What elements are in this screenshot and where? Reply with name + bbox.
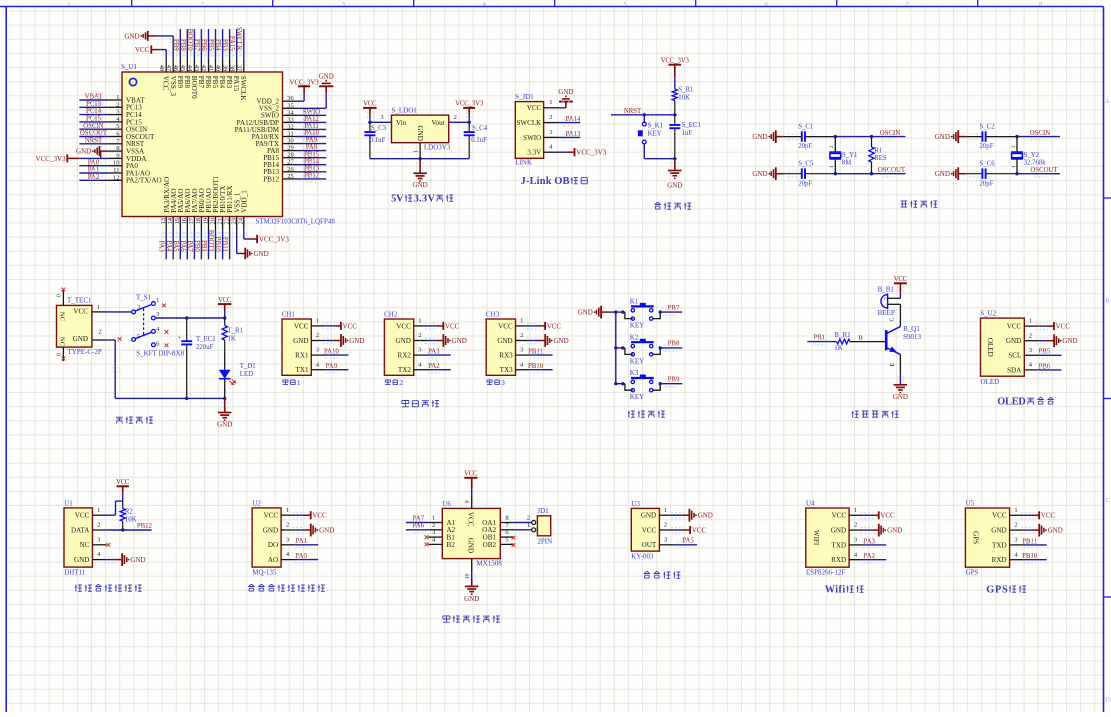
svg-text:28: 28	[287, 152, 294, 159]
svg-text:37: 37	[235, 65, 242, 72]
svg-text:3: 3	[664, 536, 667, 543]
svg-text:KEY: KEY	[648, 131, 662, 138]
svg-text:8: 8	[505, 515, 508, 522]
svg-text:PB9: PB9	[176, 76, 184, 89]
svg-text:PB6: PB6	[200, 39, 207, 51]
svg-text:PB7: PB7	[668, 305, 680, 312]
svg-text:S_KFT DIP-8X8: S_KFT DIP-8X8	[136, 349, 184, 357]
svg-text:1: 1	[297, 378, 301, 387]
svg-text:S_U2: S_U2	[980, 310, 996, 318]
svg-text:0.1uF: 0.1uF	[370, 137, 386, 144]
svg-text:GND: GND	[76, 148, 91, 156]
svg-text:K2: K2	[630, 333, 639, 341]
svg-text:32: 32	[287, 123, 294, 130]
svg-text:PB0: PB0	[193, 240, 200, 252]
svg-text:30: 30	[287, 138, 294, 145]
svg-text:VCC: VCC	[312, 512, 327, 520]
svg-text:1: 1	[286, 507, 289, 514]
svg-text:11: 11	[113, 167, 119, 174]
svg-text:WIFI: WIFI	[812, 530, 820, 546]
svg-text:VCC: VCC	[498, 322, 513, 330]
svg-text:PB5: PB5	[207, 39, 214, 51]
svg-text:S_K1: S_K1	[648, 123, 664, 130]
svg-text:26: 26	[287, 166, 294, 173]
svg-text:DO: DO	[268, 541, 278, 549]
svg-text:2: 2	[1011, 145, 1017, 148]
svg-text:46: 46	[172, 65, 179, 72]
svg-text:S_EC1: S_EC1	[682, 122, 701, 129]
svg-text:JD1: JD1	[537, 507, 549, 515]
svg-text:GND: GND	[74, 556, 89, 564]
svg-text:GND: GND	[554, 337, 569, 345]
svg-text:2: 2	[286, 522, 289, 529]
svg-text:GND: GND	[466, 538, 474, 553]
svg-text:S_R1: S_R1	[678, 86, 693, 93]
svg-text:OSCIN: OSCIN	[83, 123, 103, 130]
svg-text:C: C	[1105, 497, 1109, 504]
svg-text:5V: 5V	[391, 194, 404, 205]
svg-text:PA3: PA3	[428, 349, 440, 356]
svg-text:TX2: TX2	[398, 366, 411, 374]
svg-text:1: 1	[1011, 165, 1017, 168]
svg-text:DATA: DATA	[71, 526, 90, 534]
svg-text:SDA: SDA	[1007, 366, 1022, 374]
svg-text:20pF: 20pF	[798, 180, 812, 187]
svg-text:OLED: OLED	[997, 397, 1026, 408]
svg-text:RX2: RX2	[397, 352, 411, 360]
svg-text:2: 2	[1014, 522, 1017, 529]
svg-text:3: 3	[342, 1, 345, 8]
svg-text:PB4: PB4	[218, 76, 226, 89]
svg-text:2PIN: 2PIN	[537, 538, 552, 546]
svg-text:PA7: PA7	[186, 240, 193, 252]
svg-text:0: 0	[57, 353, 63, 356]
svg-text:PB6: PB6	[1039, 363, 1051, 370]
svg-text:SWIO: SWIO	[523, 134, 541, 142]
svg-text:9: 9	[116, 152, 119, 159]
svg-text:DHT11: DHT11	[64, 568, 86, 576]
svg-text:VSS_3: VSS_3	[169, 76, 177, 97]
svg-text:PA2/TX/AO: PA2/TX/AO	[126, 177, 162, 185]
svg-text:PB11: PB11	[221, 237, 228, 252]
svg-text:GND: GND	[558, 88, 573, 96]
svg-text:2: 2	[316, 332, 319, 339]
svg-text:41: 41	[207, 65, 214, 72]
svg-text:PA1: PA1	[295, 538, 306, 545]
svg-text:RX3: RX3	[499, 352, 513, 360]
svg-text:VCC: VCC	[1007, 323, 1022, 331]
svg-text:RES: RES	[874, 155, 887, 162]
svg-text:S_C2: S_C2	[980, 124, 996, 131]
svg-text:3: 3	[520, 347, 523, 354]
svg-text:T_S1: T_S1	[136, 294, 152, 302]
svg-text:22: 22	[223, 218, 230, 225]
svg-text:2: 2	[97, 522, 100, 529]
svg-text:PB6: PB6	[204, 76, 212, 89]
svg-text:43: 43	[193, 65, 200, 72]
svg-text:20: 20	[209, 218, 216, 225]
svg-text:2: 2	[98, 328, 101, 335]
svg-text:GND: GND	[217, 420, 232, 428]
svg-text:10K: 10K	[125, 516, 137, 523]
svg-text:C: C	[890, 318, 896, 322]
svg-text:20pF: 20pF	[798, 143, 812, 150]
svg-text:9: 9	[465, 500, 471, 503]
svg-text:RXD: RXD	[992, 556, 1007, 564]
svg-text:GND: GND	[1006, 337, 1021, 345]
svg-text:GND: GND	[578, 309, 593, 317]
svg-text:VCC: VCC	[363, 101, 377, 108]
svg-text:10: 10	[113, 160, 120, 167]
svg-text:GND: GND	[319, 526, 334, 534]
svg-text:TXD: TXD	[832, 541, 847, 549]
svg-text:BOOT0: BOOT0	[190, 76, 198, 99]
svg-text:3: 3	[380, 114, 383, 121]
svg-text:PA6: PA6	[179, 240, 186, 252]
svg-text:3: 3	[316, 347, 319, 354]
svg-text:12: 12	[113, 174, 120, 181]
svg-text:20pF: 20pF	[980, 143, 994, 150]
svg-text:CH2: CH2	[384, 310, 398, 318]
svg-text:K3: K3	[630, 369, 639, 377]
svg-text:GND: GND	[935, 170, 950, 178]
svg-text:PB5: PB5	[211, 76, 219, 89]
svg-text:BEEP: BEEP	[878, 309, 895, 317]
svg-text:VCC: VCC	[162, 76, 170, 91]
svg-text:GND: GND	[991, 527, 1006, 535]
svg-text:8M: 8M	[842, 160, 851, 167]
svg-text:E: E	[890, 363, 896, 367]
svg-text:GND: GND	[263, 526, 278, 534]
svg-text:U2: U2	[252, 499, 261, 507]
svg-text:U6: U6	[442, 500, 451, 508]
svg-text:VCC: VCC	[218, 297, 232, 304]
svg-text:D: D	[1105, 697, 1110, 704]
svg-text:1: 1	[156, 297, 159, 304]
svg-text:GND: GND	[1048, 527, 1063, 535]
svg-text:PB7: PB7	[193, 39, 200, 51]
svg-text:K1: K1	[630, 298, 639, 306]
svg-text:GND: GND	[124, 32, 139, 40]
svg-text:S_C1: S_C1	[798, 124, 813, 131]
svg-text:PA6: PA6	[413, 523, 425, 530]
svg-text:1: 1	[829, 165, 835, 168]
svg-text:RX1: RX1	[295, 352, 309, 360]
svg-text:OLED: OLED	[981, 378, 1000, 386]
svg-text:NC: NC	[58, 312, 65, 322]
svg-text:GND: GND	[396, 337, 411, 345]
svg-text:2: 2	[454, 114, 457, 121]
svg-text:Vout: Vout	[431, 119, 444, 127]
svg-text:1K: 1K	[228, 336, 236, 343]
svg-text:S_Y2: S_Y2	[1024, 152, 1040, 159]
svg-text:Wifi: Wifi	[825, 585, 846, 596]
svg-text:B2: B2	[447, 541, 456, 549]
svg-text:KEY: KEY	[630, 393, 644, 401]
svg-text:VCC: VCC	[466, 512, 474, 527]
svg-text:T_D1: T_D1	[240, 363, 256, 370]
svg-text:U4: U4	[806, 499, 815, 507]
svg-text:PB3: PB3	[225, 76, 233, 89]
svg-text:PA7: PA7	[413, 515, 425, 522]
svg-text:CH3: CH3	[486, 310, 500, 318]
svg-text:36: 36	[287, 95, 294, 102]
svg-text:KEY: KEY	[630, 322, 644, 330]
svg-text:VCC: VCC	[135, 46, 150, 54]
svg-text:OLED: OLED	[986, 338, 994, 357]
svg-text:0: 0	[57, 294, 63, 297]
svg-text:LINK: LINK	[515, 159, 532, 167]
svg-text:TYPE-C-2P: TYPE-C-2P	[68, 348, 102, 356]
svg-text:MX1508: MX1508	[477, 560, 503, 568]
svg-text:GND: GND	[254, 250, 269, 258]
svg-text:3: 3	[854, 537, 857, 544]
svg-text:PA5: PA5	[172, 240, 179, 252]
svg-text:VCC: VCC	[894, 276, 908, 283]
svg-text:PA5: PA5	[682, 538, 694, 545]
svg-text:1: 1	[1029, 318, 1032, 325]
svg-text:3: 3	[286, 536, 289, 543]
svg-text:VCC: VCC	[343, 322, 358, 330]
svg-text:10: 10	[465, 573, 471, 579]
svg-text:1: 1	[67, 1, 70, 8]
svg-text:19: 19	[202, 218, 209, 225]
svg-text:PA2: PA2	[428, 363, 440, 370]
svg-text:VCC_3V3: VCC_3V3	[290, 79, 320, 86]
svg-text:B_Q1: B_Q1	[903, 325, 920, 333]
svg-text:5: 5	[116, 123, 119, 130]
svg-text:42: 42	[200, 65, 207, 72]
svg-text:B_B1: B_B1	[878, 286, 895, 294]
svg-text:ESP8266-12F: ESP8266-12F	[806, 569, 845, 577]
svg-text:S_Y1: S_Y1	[842, 152, 858, 159]
svg-text:2: 2	[549, 114, 552, 121]
svg-text:VCC: VCC	[832, 512, 847, 520]
svg-text:17: 17	[188, 217, 195, 224]
svg-text:2: 2	[829, 145, 835, 148]
svg-text:48: 48	[158, 65, 165, 72]
svg-text:OSCOUT: OSCOUT	[1030, 167, 1058, 174]
svg-text:PA2: PA2	[863, 553, 875, 560]
svg-text:3: 3	[1029, 347, 1032, 354]
svg-text:2: 2	[1029, 332, 1032, 339]
svg-text:PA15: PA15	[232, 76, 240, 92]
svg-text:2: 2	[418, 332, 421, 339]
svg-text:T_R1: T_R1	[228, 328, 243, 335]
svg-text:VCC: VCC	[1056, 323, 1071, 331]
svg-text:24: 24	[238, 217, 245, 224]
svg-text:PB9: PB9	[668, 377, 680, 384]
svg-text:3: 3	[116, 109, 119, 116]
svg-text:2: 2	[854, 522, 857, 529]
svg-text:VCC: VCC	[464, 471, 478, 478]
svg-text:3: 3	[1014, 537, 1017, 544]
svg-text:VCC: VCC	[1041, 512, 1056, 520]
svg-text:T_EC1: T_EC1	[196, 336, 216, 343]
svg-text:23: 23	[231, 218, 238, 225]
svg-text:STM32F103C8T6_LQFP48: STM32F103C8T6_LQFP48	[256, 218, 336, 226]
svg-text:OB2: OB2	[483, 541, 497, 549]
svg-text:27: 27	[287, 159, 294, 166]
svg-text:+: +	[883, 298, 886, 303]
svg-text:20pF: 20pF	[980, 180, 994, 187]
svg-text:B_R1: B_R1	[834, 331, 851, 339]
svg-text:LED: LED	[240, 371, 253, 378]
svg-text:8: 8	[1039, 1, 1042, 8]
svg-text:VCC_3V3: VCC_3V3	[661, 58, 690, 65]
svg-text:GND: GND	[319, 72, 334, 80]
svg-text:KY-003: KY-003	[631, 552, 654, 560]
svg-text:VCC: VCC	[294, 322, 309, 330]
svg-text:VCC: VCC	[445, 322, 460, 330]
svg-text:GND: GND	[464, 595, 479, 603]
svg-text:S_C3: S_C3	[371, 125, 387, 132]
svg-text:VCC_3V3: VCC_3V3	[36, 155, 66, 163]
svg-text:PB12: PB12	[263, 175, 279, 183]
svg-text:1: 1	[520, 318, 523, 325]
svg-text:3: 3	[418, 347, 421, 354]
svg-text:PB4: PB4	[214, 39, 221, 51]
svg-text:1: 1	[664, 507, 667, 514]
svg-text:TXD: TXD	[992, 541, 1007, 549]
svg-text:1: 1	[116, 94, 119, 101]
svg-text:GND: GND	[416, 126, 424, 141]
svg-text:1: 1	[316, 318, 319, 325]
svg-text:25: 25	[287, 173, 294, 180]
svg-text:GPS: GPS	[972, 531, 980, 544]
svg-text:VCC: VCC	[75, 512, 90, 520]
svg-text:T_TEC1: T_TEC1	[67, 297, 92, 305]
svg-text:B: B	[1105, 298, 1110, 305]
svg-text:S_C6: S_C6	[980, 161, 996, 168]
svg-text:U3: U3	[631, 500, 640, 508]
svg-text:S_C5: S_C5	[798, 161, 814, 168]
svg-text:A: A	[1105, 98, 1110, 105]
svg-text:GND: GND	[1062, 337, 1077, 345]
svg-text:GND: GND	[452, 337, 467, 345]
svg-text:VDD_1: VDD_1	[240, 190, 248, 213]
svg-text:NC: NC	[58, 337, 65, 347]
svg-text:10K: 10K	[678, 94, 690, 101]
svg-text:VCC: VCC	[547, 322, 562, 330]
svg-text:GND: GND	[293, 337, 308, 345]
svg-text:VCC: VCC	[527, 104, 542, 112]
svg-text:3.3V: 3.3V	[414, 194, 436, 205]
svg-text:45: 45	[179, 65, 186, 72]
svg-text:1uF: 1uF	[682, 130, 693, 137]
svg-text:TX1: TX1	[295, 366, 308, 374]
svg-text:2: 2	[432, 522, 435, 529]
svg-text:Vin: Vin	[396, 119, 407, 127]
svg-text:SCL: SCL	[1008, 352, 1021, 360]
svg-text:SWCLK: SWCLK	[239, 76, 247, 102]
svg-text:S_JD1: S_JD1	[515, 93, 534, 101]
svg-text:VCC_3V3: VCC_3V3	[455, 101, 484, 108]
svg-text:VCC: VCC	[73, 308, 88, 316]
svg-text:5: 5	[624, 1, 627, 8]
svg-text:PA9: PA9	[326, 363, 338, 370]
svg-text:CH1: CH1	[282, 310, 296, 318]
svg-text:AO: AO	[268, 556, 278, 564]
svg-text:LDO3V3: LDO3V3	[424, 144, 451, 152]
svg-text:2: 2	[520, 332, 523, 339]
svg-text:KEY: KEY	[630, 357, 644, 365]
svg-text:TX3: TX3	[500, 366, 513, 374]
svg-text:39: 39	[221, 65, 228, 72]
svg-text:GND: GND	[130, 556, 145, 564]
svg-text:3: 3	[156, 311, 159, 318]
svg-text:VCC: VCC	[992, 512, 1007, 520]
svg-text:38: 38	[228, 65, 235, 72]
svg-text:GND: GND	[887, 527, 902, 535]
svg-text:VCC: VCC	[396, 322, 411, 330]
svg-text:PB12: PB12	[137, 523, 153, 530]
svg-text:29: 29	[287, 145, 294, 152]
svg-text:GND: GND	[413, 181, 428, 189]
svg-text:1: 1	[527, 522, 530, 529]
svg-text:PB8: PB8	[179, 39, 186, 51]
svg-text:0.1uF: 0.1uF	[471, 137, 487, 144]
svg-text:44: 44	[186, 65, 193, 72]
svg-text:5: 5	[137, 333, 140, 340]
svg-text:3: 3	[432, 529, 435, 536]
svg-text:GND: GND	[831, 527, 846, 535]
svg-text:PA0: PA0	[295, 553, 307, 560]
svg-text:PB1: PB1	[813, 334, 825, 341]
svg-text:2: 2	[116, 101, 119, 108]
svg-text:1: 1	[418, 318, 421, 325]
svg-text:R1: R1	[874, 148, 882, 155]
svg-text:35: 35	[287, 102, 294, 109]
svg-text:32.768k: 32.768k	[1024, 160, 1047, 167]
svg-text:SWCLK: SWCLK	[235, 27, 242, 51]
svg-text:1: 1	[1014, 507, 1017, 514]
svg-text:GND: GND	[752, 133, 767, 141]
svg-text:VCC_3V3: VCC_3V3	[259, 235, 289, 243]
svg-text:PB8: PB8	[668, 341, 680, 348]
svg-text:U1: U1	[64, 499, 73, 507]
svg-text:5: 5	[505, 536, 508, 543]
svg-text:S_U1: S_U1	[121, 63, 137, 71]
svg-text:GND: GND	[497, 337, 512, 345]
svg-text:1: 1	[854, 507, 857, 514]
svg-text:NC: NC	[80, 541, 90, 549]
svg-text:MQ-135: MQ-135	[252, 568, 277, 576]
svg-text:R2: R2	[125, 508, 134, 515]
svg-text:1: 1	[97, 507, 100, 514]
svg-text:40: 40	[214, 65, 221, 72]
svg-text:8: 8	[116, 145, 119, 152]
svg-text:3.3V: 3.3V	[527, 149, 542, 157]
svg-text:16: 16	[181, 217, 188, 224]
svg-text:PA3: PA3	[863, 538, 875, 545]
svg-text:PA15: PA15	[228, 36, 235, 51]
svg-text:PB5: PB5	[1039, 349, 1051, 356]
svg-text:GND: GND	[893, 393, 908, 401]
svg-text:OUT: OUT	[642, 541, 657, 549]
svg-text:B: B	[858, 334, 863, 341]
svg-text:3: 3	[97, 536, 100, 543]
svg-text:RXD: RXD	[831, 556, 846, 564]
svg-text:1: 1	[549, 99, 552, 106]
svg-text:31: 31	[287, 131, 294, 138]
svg-text:14: 14	[167, 217, 174, 224]
svg-text:PB8: PB8	[183, 76, 191, 89]
svg-text:13: 13	[160, 218, 167, 225]
svg-text:PB1: PB1	[200, 240, 207, 252]
svg-text:1K: 1K	[834, 344, 843, 352]
svg-text:NRST: NRST	[624, 108, 642, 115]
